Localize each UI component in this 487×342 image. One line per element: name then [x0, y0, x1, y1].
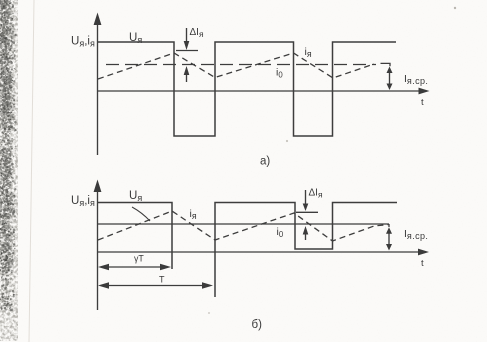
svg-text:t: t	[421, 258, 424, 269]
svg-text:б): б)	[252, 319, 263, 331]
svg-text:ΔIя: ΔIя	[190, 27, 204, 39]
svg-text:а): а)	[260, 156, 270, 168]
svg-text:γT: γT	[134, 254, 144, 264]
svg-text:t: t	[421, 97, 424, 108]
svg-text:ΔIя: ΔIя	[309, 187, 323, 199]
svg-text:T: T	[159, 275, 165, 285]
